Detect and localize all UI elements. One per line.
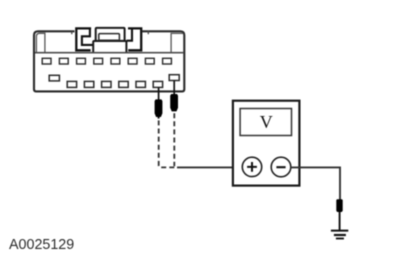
ground bar 2 (334, 234, 346, 236)
svg-text:V: V (260, 112, 273, 132)
probe P2 body (170, 94, 178, 111)
latch left bracket hook (82, 29, 93, 45)
pin row top 1 (42, 58, 51, 64)
probe P1 tip stub (158, 117, 160, 119)
wire from minus to ground drop (291, 167, 340, 199)
probe P1 stem (158, 87, 160, 100)
wire solid to voltmeter plus (177, 166, 244, 168)
ground lead terminal blob (336, 199, 342, 212)
latch left bracket outer (76, 28, 91, 50)
pin row top 2 (59, 58, 68, 64)
test lead dashed from P1 (159, 120, 177, 167)
pin bottom low 1 (67, 81, 76, 87)
pin row top 3 (77, 58, 86, 64)
pin bottom low 2 (84, 81, 93, 87)
connector inner top-right ridge (171, 33, 183, 52)
pin row top 5 (111, 58, 120, 64)
pin row top 7 (145, 58, 154, 64)
pin bottom-right high (probed) (169, 75, 179, 81)
ground stem (339, 212, 341, 230)
pin row top 8 (163, 58, 172, 64)
latch shoulder line (94, 40, 125, 42)
latch hood upper box (96, 28, 125, 42)
latch right bracket hook (127, 29, 132, 41)
ground bar 3 (336, 238, 344, 240)
plus sign (247, 162, 257, 172)
latch hood skirt (93, 41, 126, 53)
test lead dashed from P2 (173, 113, 175, 166)
connector molded tick left of latch (71, 31, 73, 34)
connector inner top-left ridge (36, 33, 45, 52)
connector molded tick right of latch (147, 31, 149, 34)
latch tab (99, 34, 120, 41)
pin bottom low 5 (136, 81, 145, 87)
pin row top 6 (128, 58, 137, 64)
pin bottom low 6 (probed) (153, 81, 162, 87)
pin bottom-left high (49, 75, 59, 81)
connector horizontal shell line (35, 52, 183, 54)
voltmeter plus terminal (242, 157, 261, 176)
pin row top 4 (94, 58, 103, 64)
pin bottom low 3 (102, 81, 111, 87)
probe P1 body (155, 99, 163, 117)
voltmeter display (240, 109, 291, 136)
ground bar 1 (331, 230, 348, 232)
latch right bracket outer (128, 28, 141, 50)
figure label A0025129 (9, 237, 74, 253)
voltmeter minus terminal (271, 157, 291, 177)
voltmeter body (233, 101, 300, 186)
probe P2 stem (173, 81, 175, 96)
pin bottom low 4 (119, 81, 128, 87)
minus sign (276, 166, 285, 168)
connector C1 body outline (34, 31, 184, 91)
